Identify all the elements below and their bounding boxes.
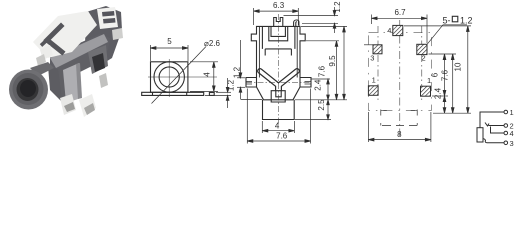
extra pin piece [209,93,214,96]
svg-text:1: 1 [372,76,376,85]
body outline [246,26,311,99]
svg-text:6: 6 [431,72,440,77]
pad 1 (bottom left) [368,86,378,96]
dim 1.2 right top [284,15,339,17]
circles [154,62,184,92]
svg-text:1.2: 1.2 [460,16,473,26]
Y contact (double-walled arms) [258,69,300,91]
photo left tabs [40,45,53,60]
dim 5 [149,45,151,61]
leader 5-1.2 [427,25,467,44]
wire pin 1 (sleeve) [480,112,504,128]
svg-text:2.4: 2.4 [434,87,443,99]
shield inner bridge [262,26,295,55]
leader dia2.6 (45deg through circle) [152,47,207,104]
dim 7.6 bottom [246,89,248,144]
pin 1 terminal circle [504,110,508,114]
svg-text:3: 3 [370,54,374,63]
centerline [399,20,401,136]
inner wall lines [259,26,297,77]
foot bar [142,92,204,95]
pin 2 terminal circle [504,124,508,128]
photo V cutout [47,26,62,52]
photo shield white arrow [33,11,97,58]
body dash-dot outline [369,33,432,111]
svg-text:4: 4 [275,122,280,131]
pad 3 (left) [373,45,382,54]
photo upper body dark mass [85,6,122,68]
svg-text:4: 4 [203,72,212,77]
centerline horizontal [246,82,311,84]
photo barrel [9,70,48,110]
svg-text:7.6: 7.6 [318,65,327,77]
svg-text:⌀2.6: ⌀2.6 [204,39,220,48]
dim 2.5 right [295,99,347,101]
photo right pin [112,28,123,40]
dim 9.5 right [301,25,347,27]
body square [151,62,188,93]
svg-text:6.7: 6.7 [394,8,406,17]
photo rear E terminal [97,7,118,29]
svg-text:4: 4 [510,129,514,138]
pad 4 (top center) [393,25,403,35]
svg-text:2: 2 [422,54,426,63]
svg-text:7.6: 7.6 [276,132,288,141]
svg-text:2.5: 2.5 [317,99,326,111]
svg-text:4: 4 [387,26,391,35]
pin 3 terminal circle [504,141,508,145]
svg-text:1.2: 1.2 [233,66,242,78]
photo mid body dark [50,34,110,72]
svg-text:8: 8 [397,130,402,139]
center terminal M [274,18,283,27]
dim 8 [367,112,369,142]
left body bottom ext [241,99,263,101]
right tab notch [305,82,311,85]
centerline vertical [278,14,280,124]
right hook terminal [294,20,299,26]
photo lower dark mass [48,66,64,104]
pad 2 (right) [417,44,427,54]
svg-text:5: 5 [167,37,172,46]
wire pin 4 (switch) [491,127,505,134]
pin 4 terminal circle [504,131,508,135]
crosshair [148,76,217,78]
dim 4 [190,61,218,63]
barrel [263,100,295,120]
dim 1.2 left [237,77,245,79]
dim 7.6 right [306,40,339,42]
svg-text:3: 3 [510,139,514,148]
photo white foot [79,94,96,117]
photo light slab [63,63,81,103]
dim 10 [404,25,471,27]
square symbol in 5-sq1.2 [452,16,458,22]
left tab notch [246,82,252,85]
svg-text:7.6: 7.6 [441,69,450,81]
svg-text:6.3: 6.3 [273,1,285,10]
dim 6 / 2.4 chain [432,95,448,97]
wire pin 3 (tip contact) [483,139,504,143]
svg-text:2.4: 2.4 [313,79,322,91]
photo barrel wedge [30,62,54,76]
ext line left of pad 3 [364,44,373,46]
svg-text:1.2: 1.2 [333,1,342,13]
svg-text:9.5: 9.5 [328,55,337,67]
Y stem box [271,91,285,102]
photo front band light [50,34,108,68]
dim 6.3 top [253,8,255,25]
svg-text:5-: 5- [443,16,451,26]
switch contact arm [485,123,489,127]
dim 2.4 right [312,78,331,80]
jack sleeve body symbol [477,128,483,142]
svg-text:1.2: 1.2 [227,79,236,91]
photo small leg [99,73,108,88]
barrel dashed [381,110,417,126]
svg-text:10: 10 [453,62,462,71]
dim 1.2 foot [205,94,231,96]
wire pin 2 (ring contact) [489,125,505,127]
pad 1 (bottom right) [421,86,431,96]
dim 7.6 [429,53,457,55]
svg-text:1: 1 [510,108,514,117]
photo hole region [88,45,108,74]
dim 6.7 [371,15,373,25]
inner center slot [269,26,288,40]
dim 4 bottom [261,121,263,133]
